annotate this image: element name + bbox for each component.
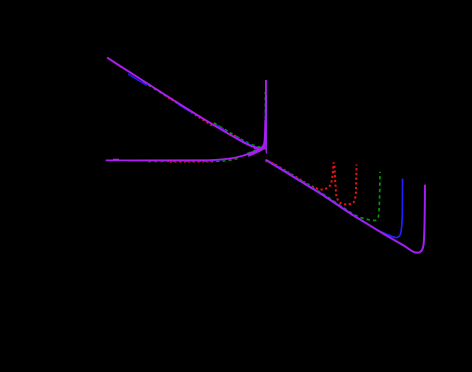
red curve: fringe on lower flat branch <box>170 161 216 163</box>
green fringe above junction bend of flat branch <box>247 147 263 153</box>
green curve: fringe on upper descending branch (above line, dashed) <box>214 123 261 147</box>
blue curve: lower flat branch <box>128 143 265 161</box>
green curve: continuation with pole spike (dashed) <box>268 161 380 221</box>
green curve: fringe on lower flat branch (dashed) <box>148 158 240 162</box>
violet curve: upper-left descending branch into main spike <box>107 58 266 149</box>
green curve: fringe on upper descending branch (below line, dashed) <box>143 82 210 123</box>
blue curve: fringe on upper descending branch <box>128 74 247 144</box>
violet curve: continuation line to final pole <box>266 160 425 253</box>
red curve: fringe on upper descending branch (below line) <box>164 95 212 126</box>
red specks near junction bend <box>250 149 259 153</box>
magenta bright segments on left branches <box>108 58 123 68</box>
red x marker at start of continuation <box>265 160 268 163</box>
violet junction knot blob <box>248 139 265 156</box>
red curve: continuation with two pole spikes (dotted) <box>267 160 357 204</box>
violet curve: lower flat branch rising into junction <box>106 120 266 160</box>
red curve: fringe on upper descending branch (above line near junction) <box>214 123 250 143</box>
blue curve: upper branch bend into spike <box>245 95 266 148</box>
blue curve: continuation with pole spike <box>266 161 402 238</box>
violet curve: main spike down-stroke <box>265 95 267 154</box>
green segment inside main spike <box>264 92 266 150</box>
